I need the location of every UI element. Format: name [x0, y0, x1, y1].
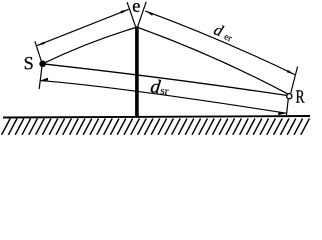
ray S to e: [43, 27, 137, 64]
label d_sr: [150, 79, 161, 94]
extension line above S: [35, 41, 42, 62]
ground hatching: [2, 119, 310, 135]
arrowhead at e end of S-e dimension: [120, 9, 128, 13]
label S: [25, 57, 33, 69]
dimension line S-R (d_sr): [40, 81, 287, 114]
ground: [3, 116, 310, 118]
arrowhead at R end of d_er: [287, 70, 295, 75]
extension line below R: [286, 99, 288, 116]
knife edge obstacle bar: [135, 26, 139, 117]
ray e to R: [137, 27, 288, 94]
node S (source point): [39, 61, 46, 68]
label R: [296, 90, 305, 102]
label e: [133, 3, 140, 12]
dimension line e-R (d_er): [145, 11, 295, 75]
extension slash left of e: [127, 2, 136, 27]
extension line above R: [291, 67, 298, 93]
arrowhead at S end of d_sr: [40, 78, 48, 81]
label d_er: [213, 23, 224, 36]
arrowhead at S end of S-e dimension: [36, 42, 44, 46]
extension slash right of e: [137, 2, 146, 28]
extension line below S: [39, 67, 42, 89]
arrowhead at R end of d_sr: [278, 112, 286, 115]
dimension line S-e: [36, 9, 128, 46]
arrowhead at e end of d_er: [145, 11, 153, 16]
direct ray S to R: [43, 64, 287, 96]
node R (receiver point): [287, 94, 292, 99]
